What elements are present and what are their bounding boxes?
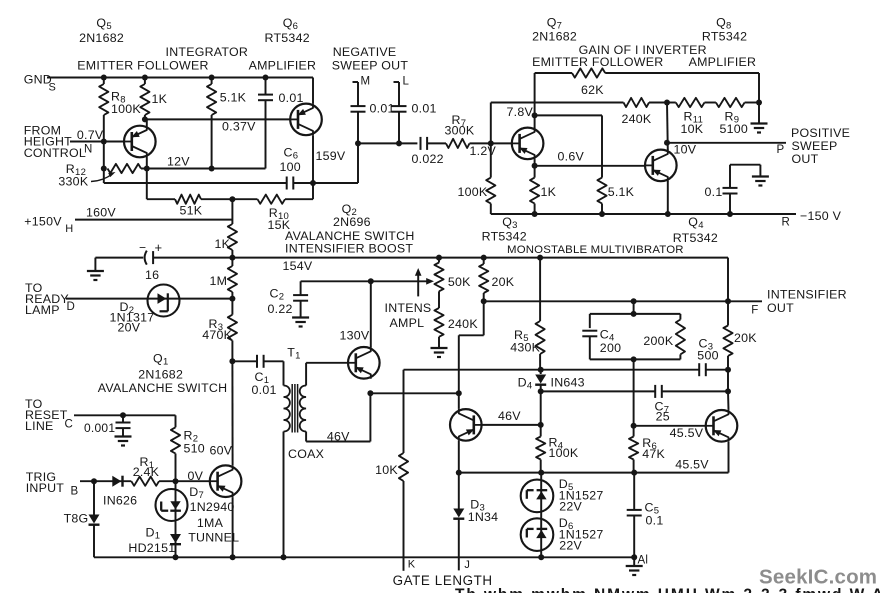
- transformer T1 primary: [284, 346, 301, 386]
- wire 12V rail: [141, 155, 266, 169]
- transistor Q5 2N1682 emitter follower: [124, 126, 156, 158]
- wire GND top rail node S: [47, 77, 313, 79]
- wire feedback to C6: [104, 182, 287, 184]
- resistor R9 5100: [705, 98, 760, 136]
- wire Q1 emitter to bottom rail: [232, 497, 234, 557]
- capacitor C3 500: [697, 337, 718, 377]
- wire monostable rail (R5/D4/C3/10K node): [404, 369, 729, 371]
- ground at 240K: [431, 348, 448, 357]
- resistor 5.1K (Q7/Q8): [597, 178, 634, 204]
- svg-text:−150 V: −150 V: [800, 209, 842, 223]
- resistor R1 2.4K: [131, 455, 159, 486]
- svg-text:SWEEP: SWEEP: [792, 139, 838, 153]
- label Q8 RT5342: [702, 16, 747, 44]
- svg-text:L: L: [403, 76, 410, 88]
- junction T8G node: [91, 478, 97, 484]
- junction dots 12V rail: [101, 166, 215, 172]
- wire positive sweep out terminal P: [667, 143, 786, 156]
- junction Q2 emitter node: [367, 390, 373, 396]
- svg-text:T8G: T8G: [64, 512, 89, 526]
- label Q1 2N1682 AVALANCHE SWITCH: [98, 352, 228, 396]
- wire Q7 emitter 0.6V node: [535, 149, 585, 166]
- wire Q3 collector up: [458, 393, 460, 409]
- wire 62K to right corner: [605, 73, 759, 103]
- svg-text:+150V: +150V: [24, 214, 62, 228]
- svg-text:10V: 10V: [674, 143, 697, 157]
- junction 0.001 node: [120, 412, 126, 418]
- wire reset line terminal C: [74, 414, 176, 416]
- wire -150V rail terminal R: [491, 209, 842, 229]
- svg-text:46V: 46V: [498, 409, 521, 423]
- transistor Q1 avalanche switch: [210, 465, 242, 497]
- wire 0.1 cap to ground: [730, 165, 760, 177]
- svg-text:5.1K: 5.1K: [220, 91, 247, 105]
- svg-text:RT5342: RT5342: [265, 31, 310, 45]
- ground at R9: [751, 103, 768, 133]
- junction Q6 emitter node 159V: [310, 149, 346, 186]
- wire C2 wiper: [301, 278, 434, 285]
- svg-text:N: N: [84, 143, 93, 155]
- capacitor C2 0.22: [268, 281, 309, 317]
- wire Q7 collector column: [534, 73, 536, 128]
- wire 51K row from Q5 collector: [147, 169, 175, 200]
- svg-text:22V: 22V: [559, 539, 582, 553]
- transistor Q2 2N696 intensifier boost: [340, 329, 380, 379]
- wire ready lamp terminal D: [66, 298, 232, 300]
- svg-text:2.4K: 2.4K: [133, 465, 160, 479]
- terminal K label: [408, 558, 416, 570]
- svg-text:0.01: 0.01: [279, 91, 304, 105]
- wire Q4 base 45.5V: [634, 426, 706, 440]
- wire R1 to Q1 base: [159, 469, 210, 483]
- diode D2 1N1317 in circle: [110, 285, 180, 335]
- svg-text:20K: 20K: [734, 331, 757, 345]
- svg-text:47K: 47K: [642, 447, 665, 461]
- svg-text:45.5V: 45.5V: [675, 458, 709, 472]
- svg-text:2N1682: 2N1682: [532, 30, 577, 44]
- capacitor C7 25: [655, 385, 670, 424]
- ground 154V rail left: [87, 258, 104, 280]
- svg-text:430K: 430K: [510, 341, 540, 355]
- watermark SeekIC.com: [759, 566, 877, 589]
- diode 1N626: [103, 476, 137, 508]
- svg-text:159V: 159V: [316, 149, 346, 163]
- svg-text:AMPL: AMPL: [390, 316, 425, 330]
- junction R2/D7 node: [173, 478, 179, 484]
- capacitor C6 100: [280, 146, 314, 190]
- wire R7 to 1.2V node: [470, 143, 497, 157]
- junction dots 154V rail: [229, 255, 543, 261]
- wire sweep coupling row: [358, 142, 417, 144]
- junction node A (Q3 base/R4/D4): [538, 422, 544, 428]
- wire right column from 154V rail: [727, 258, 729, 326]
- wire 10K column: [403, 370, 405, 453]
- junction Q7 collector tap: [532, 112, 538, 118]
- svg-text:SeekIC.com: SeekIC.com: [759, 566, 877, 589]
- capacitor 0.1 (sweep filter): [705, 165, 738, 214]
- resistor 51K: [175, 195, 203, 218]
- capacitor C5 0.1: [627, 473, 664, 558]
- svg-text:1MA: 1MA: [197, 516, 224, 530]
- svg-text:22V: 22V: [559, 500, 582, 514]
- junction Q2 collector node: [368, 278, 374, 284]
- svg-text:470K: 470K: [202, 328, 232, 342]
- resistor 20K (right): [723, 326, 757, 370]
- wire Q7 base: [491, 142, 512, 144]
- transistor Q3 monostable left: [450, 409, 482, 441]
- capacitor 0.01 (integrator): [258, 78, 304, 169]
- svg-text:J: J: [464, 559, 470, 571]
- diode T8G: [64, 481, 100, 557]
- label MONOSTABLE MULTIVIBRATOR: [507, 244, 684, 256]
- svg-text:10K: 10K: [375, 463, 398, 477]
- wire collector tap to 5.1K: [535, 115, 602, 177]
- svg-text:25: 25: [656, 410, 670, 424]
- junction dots 45.5V rail: [456, 470, 637, 476]
- svg-text:510: 510: [184, 442, 205, 456]
- label TRIG INPUT terminal B: [26, 470, 79, 498]
- svg-text:INTEGRATOR: INTEGRATOR: [166, 45, 249, 59]
- svg-text:0.1: 0.1: [646, 514, 664, 528]
- resistor 240K (intens divider): [434, 291, 478, 348]
- svg-text:CONTROL: CONTROL: [24, 146, 86, 160]
- svg-text:SWEEP OUT: SWEEP OUT: [332, 58, 409, 72]
- svg-text:2N1682: 2N1682: [138, 368, 183, 382]
- ground at C2: [292, 318, 309, 327]
- svg-text:P: P: [777, 144, 785, 156]
- capacitor 0.01 terminal M: [351, 76, 395, 144]
- svg-text:HD2151: HD2151: [128, 541, 175, 555]
- resistor R4 100K: [536, 425, 579, 473]
- svg-text:0.022: 0.022: [412, 152, 444, 166]
- svg-text:0.22: 0.22: [268, 302, 293, 316]
- svg-text:0.01: 0.01: [412, 102, 437, 116]
- svg-text:INTENSIFIER: INTENSIFIER: [767, 288, 847, 302]
- svg-text:2N696: 2N696: [333, 215, 371, 229]
- svg-text:INTENSIFIER BOOST: INTENSIFIER BOOST: [285, 241, 413, 255]
- resistor R5 430K: [510, 258, 545, 370]
- svg-text:50K: 50K: [448, 275, 471, 289]
- bottom caption fragments: [455, 587, 880, 593]
- wire Q6 emitter down: [312, 136, 314, 184]
- wire main column to Q1 collector: [210, 361, 233, 465]
- main column resistor 1K: [215, 199, 238, 257]
- junction node N: [101, 139, 107, 145]
- ground at 0.1 cap: [752, 177, 769, 186]
- label TO READY LAMP terminal D: [25, 281, 75, 317]
- svg-text:0.37V: 0.37V: [222, 120, 256, 134]
- wire 45.5V rail (Q3 emitter row): [459, 458, 729, 473]
- resistor R6 47K: [629, 426, 665, 473]
- svg-text:20K: 20K: [492, 275, 515, 289]
- label +150V H: [24, 214, 73, 235]
- capacitor 16 electrolytic: [95, 240, 162, 282]
- resistor R8 100K: [99, 78, 141, 142]
- svg-text:7.8V: 7.8V: [507, 105, 534, 119]
- svg-text:240K: 240K: [448, 317, 478, 331]
- label Q2 2N696 AVALANCHE SWITCH INTENSIFIER BOOST: [285, 202, 415, 256]
- transistor Q7 emitter follower: [507, 105, 544, 159]
- svg-text:D: D: [67, 301, 76, 313]
- wire 20K to Q4 collector: [727, 370, 730, 410]
- svg-text:1K: 1K: [215, 237, 231, 251]
- label INTEGRATOR / EMITTER FOLLOWER / AMPLIFIER: [77, 45, 248, 73]
- svg-text:M: M: [361, 76, 371, 88]
- capacitor 0.001: [84, 415, 131, 436]
- ground terminal A1: [626, 555, 649, 576]
- label GAIN OF 1 INVERTER headers: [532, 43, 756, 69]
- svg-text:0.6V: 0.6V: [558, 149, 585, 163]
- junction 20K bottom / C3 right: [725, 367, 731, 373]
- svg-text:IN626: IN626: [103, 494, 137, 508]
- svg-text:R: R: [782, 217, 791, 229]
- wire 154V rail: [153, 258, 728, 273]
- terminal S label GND: [24, 73, 56, 94]
- svg-text:1K: 1K: [541, 185, 557, 199]
- svg-text:F: F: [751, 305, 758, 317]
- label Q4 RT5342: [673, 215, 718, 245]
- junction Q5 emitter / Q6 base node: [142, 116, 148, 122]
- junction C1 node: [229, 358, 235, 364]
- wire Q2 collector: [370, 281, 372, 347]
- wire 5.1K to -150V rail: [601, 204, 603, 215]
- svg-text:5.1K: 5.1K: [608, 185, 635, 199]
- svg-text:60V: 60V: [210, 444, 233, 458]
- svg-text:16: 16: [145, 268, 159, 282]
- resistor R11 10K: [667, 98, 705, 136]
- tunnel diode D6 1N1527: [521, 515, 604, 557]
- svg-text:RT5342: RT5342: [702, 30, 747, 44]
- resistor 62K: [572, 68, 605, 97]
- svg-text:AVALANCHE SWITCH: AVALANCHE SWITCH: [98, 381, 228, 395]
- ground at 0.001: [115, 437, 132, 446]
- wire 240K row: [491, 103, 624, 144]
- wire T1 secondary bottom 46V: [306, 393, 370, 443]
- wire Q8 collector: [666, 103, 669, 151]
- junction intensifier out right: [725, 298, 731, 304]
- svg-text:Th whm mwhm NMwm HMH Wm: Th whm mwhm NMwm HMH Wm 2-2-3 fmwd W A K: [455, 587, 880, 593]
- arrow INTENS AMPL: [385, 268, 432, 330]
- resistor 1K (Q5 emitter load): [140, 78, 167, 120]
- svg-text:POSITIVE: POSITIVE: [791, 126, 850, 140]
- tunnel diode D7 1N2940: [156, 481, 240, 557]
- wire 159V node to sweep-out corner: [313, 143, 358, 183]
- label Q6 RT5342 AMPLIFIER: [249, 16, 317, 72]
- wire +150V rail terminal H: [75, 206, 232, 220]
- svg-text:330K: 330K: [58, 174, 88, 188]
- diode D3 1N34: [453, 473, 498, 571]
- svg-text:B: B: [71, 486, 79, 498]
- svg-text:NEGATIVE: NEGATIVE: [333, 45, 397, 59]
- wire Q3 emitter down: [458, 441, 460, 473]
- label TO RESET LINE terminal C: [25, 397, 73, 433]
- resistor 5.1K (integrator): [207, 78, 247, 169]
- diode D1 HD2151: [128, 526, 181, 555]
- junction 0.6V node: [532, 163, 538, 169]
- capacitor C4 200 and 200K block: [582, 301, 680, 359]
- resistor 20K (gate): [479, 258, 515, 302]
- terminal J label: [464, 559, 470, 571]
- junction 20K bottom node: [481, 298, 487, 304]
- svg-text:300K: 300K: [445, 124, 475, 138]
- svg-text:COAX: COAX: [288, 447, 324, 461]
- svg-text:45.5V: 45.5V: [670, 426, 704, 440]
- svg-text:S: S: [49, 82, 57, 94]
- junction dots -150V rail: [532, 211, 733, 217]
- capacitor 0.01 terminal L: [392, 76, 437, 144]
- resistor 100K (Q7 base): [458, 143, 496, 214]
- label Q5 2N1682: [79, 16, 124, 45]
- resistor R2 510: [171, 415, 205, 481]
- svg-text:10K: 10K: [681, 122, 704, 136]
- leader arrow for R12 label: [91, 172, 116, 182]
- svg-text:OUT: OUT: [792, 152, 819, 166]
- resistor 200K (monostable): [643, 314, 685, 360]
- transistor Q6 RT5342 amplifier: [290, 103, 322, 135]
- label Q3 RT5342: [482, 215, 527, 243]
- label POSITIVE SWEEP OUT: [791, 126, 850, 166]
- svg-text:Al: Al: [638, 555, 649, 567]
- transformer T1 primary coil: [284, 386, 290, 558]
- svg-text:20V: 20V: [118, 320, 141, 334]
- node dots on GND rail: [101, 75, 269, 81]
- junction dots C4 block: [631, 298, 637, 362]
- label Q7 2N1682: [532, 16, 577, 44]
- svg-text:−: −: [139, 240, 146, 254]
- svg-text:LINE: LINE: [25, 419, 54, 433]
- wire intensifier out terminal F: [484, 301, 762, 316]
- svg-text:EMITTER FOLLOWER: EMITTER FOLLOWER: [532, 55, 663, 69]
- junction dots bottom rail: [173, 554, 287, 560]
- svg-text:100K: 100K: [111, 102, 141, 116]
- wire Q6 collector to GND rail: [312, 78, 314, 104]
- resistor 1K (Q7 emitter): [530, 166, 557, 214]
- wire 240K to Q8 collector node: [649, 102, 667, 104]
- wire 62K feedback top: [535, 72, 572, 74]
- svg-text:240K: 240K: [622, 112, 652, 126]
- svg-text:MONOSTABLE MULTIVIBRATOR: MONOSTABLE MULTIVIBRATOR: [507, 244, 684, 256]
- svg-text:1K: 1K: [152, 92, 168, 106]
- transistor Q8 inverter amplifier: [645, 143, 697, 182]
- svg-text:5100: 5100: [720, 122, 749, 136]
- junction 62K/R9 corner: [756, 100, 762, 106]
- tunnel diode D5 1N1527: [521, 473, 604, 515]
- wire Q2 emitter to Q3 collector: [370, 392, 458, 394]
- wire Q3 base 46V: [482, 409, 541, 425]
- svg-text:0V: 0V: [188, 469, 204, 483]
- svg-text:RT5342: RT5342: [482, 229, 527, 243]
- resistor 240K: [622, 98, 652, 126]
- svg-text:62K: 62K: [581, 83, 604, 97]
- svg-text:AMPLIFIER: AMPLIFIER: [249, 58, 317, 72]
- main column resistor 1M: [210, 258, 238, 299]
- junction 51K/R10/+150V column: [229, 196, 235, 202]
- wire R10 to 159V column: [285, 183, 313, 199]
- wire 0.6V to Q8 base: [535, 165, 645, 167]
- wire bottom rail: [94, 556, 634, 558]
- wire C7 to Q4 collector column: [662, 390, 728, 392]
- svg-text:EMITTER FOLLOWER: EMITTER FOLLOWER: [77, 58, 208, 72]
- svg-text:AMPLIFIER: AMPLIFIER: [689, 55, 757, 69]
- junction staircase/Q3 collector node: [456, 390, 462, 396]
- transformer T1 core: [292, 384, 297, 433]
- node N input wire from height control: [70, 141, 124, 143]
- wire block bottom to node B: [633, 359, 635, 425]
- svg-text:100K: 100K: [458, 185, 488, 199]
- svg-text:130V: 130V: [340, 329, 370, 343]
- svg-text:200K: 200K: [643, 334, 673, 348]
- svg-text:H: H: [65, 223, 73, 235]
- wire Q6 base from Q5 emitter: [145, 119, 290, 133]
- svg-text:500: 500: [697, 348, 718, 362]
- capacitor 0.022: [412, 137, 444, 166]
- wire between 51K and R10: [201, 198, 258, 200]
- svg-text:TUNNEL: TUNNEL: [188, 531, 239, 545]
- svg-text:100: 100: [280, 160, 301, 174]
- junction dots M and L: [355, 140, 402, 146]
- transistor Q4 monostable right: [706, 410, 738, 442]
- wire trig input terminal B: [80, 480, 131, 482]
- resistor R12 330K feedback: [58, 142, 141, 189]
- wire Q5 emitter up: [146, 119, 148, 125]
- junction D4 C7 tap: [538, 388, 544, 394]
- junction C7 right: [725, 388, 731, 394]
- wire Q5 collector down: [146, 158, 148, 169]
- label GATE LENGTH: [393, 573, 493, 588]
- junction A1 node: [631, 554, 637, 560]
- svg-text:0.7V: 0.7V: [77, 128, 104, 142]
- svg-text:12V: 12V: [167, 155, 190, 169]
- wire C7 row: [541, 390, 656, 392]
- svg-text:1N2940: 1N2940: [190, 500, 235, 514]
- svg-text:C: C: [65, 419, 74, 431]
- svg-text:154V: 154V: [283, 259, 313, 273]
- svg-text:INPUT: INPUT: [26, 481, 65, 495]
- svg-text:100K: 100K: [549, 446, 579, 460]
- junction P takeoff: [664, 140, 670, 146]
- resistor 10K (gate length): [375, 453, 408, 571]
- svg-text:0.01: 0.01: [252, 383, 277, 397]
- svg-text:1N34: 1N34: [468, 510, 499, 524]
- wire staircase 20K node to Q3 collector: [459, 301, 484, 393]
- svg-text:1M: 1M: [210, 274, 228, 288]
- junction D6 bottom rail: [538, 554, 544, 560]
- svg-text:K: K: [408, 558, 416, 570]
- wire Q4 emitter: [728, 442, 730, 473]
- junction R5 bottom: [538, 367, 544, 373]
- wire T1 secondary top to Q2 base: [306, 363, 348, 386]
- resistor R7 300K: [445, 113, 475, 148]
- label FROM HEIGHT CONTROL terminal N: [24, 123, 104, 160]
- capacitor C1 0.01: [232, 355, 283, 397]
- svg-text:INTENS: INTENS: [385, 301, 432, 315]
- transformer T1 secondary coil: [288, 386, 324, 462]
- svg-text:IN643: IN643: [551, 376, 585, 390]
- svg-text:+: +: [155, 240, 163, 255]
- svg-text:LAMP: LAMP: [25, 303, 60, 317]
- wire 0.022 to R7: [427, 142, 446, 144]
- resistor R10 15K: [258, 195, 291, 232]
- junction 1.2V node: [488, 140, 494, 146]
- label NEGATIVE SWEEP OUT: [332, 45, 409, 73]
- svg-text:51K: 51K: [180, 203, 203, 217]
- wire Q8 emitter: [667, 181, 669, 214]
- svg-text:46V: 46V: [327, 430, 350, 444]
- diode D4 1N643: [518, 370, 585, 425]
- svg-text:160V: 160V: [86, 206, 116, 220]
- svg-text:OUT: OUT: [767, 301, 794, 315]
- junction D2 node: [229, 296, 235, 302]
